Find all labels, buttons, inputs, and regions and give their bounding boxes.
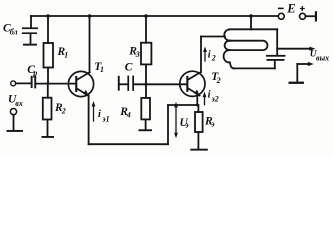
- node rail junction R3: [144, 14, 148, 18]
- current arrow i_э2: [203, 92, 207, 105]
- wire tank right vertical: [276, 29, 278, 55]
- wire input bottom stem: [13, 115, 15, 130]
- wire R1 bottom to base node: [47, 68, 49, 84]
- label Cр: [27, 64, 37, 78]
- ground under Rэ: [190, 149, 208, 151]
- minus sign: [278, 8, 284, 10]
- label Uэ: [180, 117, 190, 130]
- node base2 junction dot: [145, 83, 148, 86]
- inductor L top line: [230, 28, 278, 30]
- terminal input top: [11, 81, 16, 86]
- label i_э1: [98, 109, 110, 124]
- svg-text:3: 3: [135, 50, 140, 59]
- resistor R3: [141, 43, 151, 65]
- svg-text:E: E: [286, 2, 295, 16]
- node rail junction coil: [249, 14, 253, 18]
- ground under input: [7, 130, 24, 132]
- label R1: [57, 46, 69, 60]
- svg-text:2: 2: [216, 76, 221, 85]
- wire T2 collector up: [200, 37, 202, 73]
- wire C_bl stem from rail: [30, 16, 32, 28]
- wire bottom run: [89, 143, 168, 145]
- ground under Cбл: [23, 44, 37, 46]
- svg-text:вых: вых: [316, 54, 329, 63]
- label Cбл: [3, 22, 18, 36]
- wire output ground up: [296, 64, 298, 82]
- label T1: [94, 61, 104, 74]
- capacitor Cбл: [22, 27, 38, 34]
- capacitor Cр: [31, 75, 37, 88]
- wire T2 emitter down: [196, 96, 198, 106]
- wire coil bottom exit curl: [230, 62, 235, 68]
- wire Rэ top stem: [197, 105, 199, 112]
- wire tank bottom run: [234, 67, 275, 69]
- wire top supply rail: [31, 15, 278, 17]
- svg-text:1: 1: [64, 51, 68, 60]
- wire R1 top stem: [47, 16, 49, 43]
- wire Cр to T1 base: [36, 83, 75, 85]
- svg-text:э1: э1: [101, 114, 109, 123]
- wire C_bl lower stem: [30, 34, 32, 44]
- label C: [125, 62, 133, 74]
- node emitter2 junction: [196, 104, 199, 107]
- resistor R2: [43, 98, 52, 120]
- svg-text:вх: вх: [15, 99, 23, 108]
- voltage arrow Uэ: [174, 102, 178, 138]
- svg-text:i: i: [98, 109, 101, 120]
- wire T2 collector to coil: [201, 36, 225, 38]
- svg-text:э2: э2: [210, 95, 218, 104]
- label T2: [211, 71, 220, 85]
- node rail junction R1: [46, 14, 50, 18]
- wire emitter2 run: [168, 104, 197, 106]
- wire R3 bottom to base2 node: [145, 64, 147, 84]
- wire output bottom with arrow: [297, 62, 314, 66]
- label E: [286, 2, 295, 16]
- wire output top with arrow: [277, 47, 315, 51]
- wire T1 emitter down: [88, 96, 90, 144]
- wire R4 top stem: [145, 84, 147, 98]
- wire R2 bottom stem: [47, 120, 49, 136]
- label i_2: [208, 49, 216, 62]
- label Uвх: [8, 94, 23, 109]
- node base1 junction dot: [47, 82, 50, 85]
- ground output: [289, 82, 305, 84]
- terminal stub bar left of C: [118, 76, 120, 91]
- wire coil stem from rail: [250, 16, 252, 29]
- terminal E plus: [300, 13, 306, 19]
- plus sign: [301, 7, 305, 11]
- wire stub to C: [120, 83, 128, 85]
- wire R2 top stem: [47, 84, 49, 98]
- svg-text:э: э: [184, 120, 189, 129]
- label R4: [119, 106, 131, 119]
- wire T1 collector up: [89, 16, 91, 72]
- transistor T1: [68, 71, 93, 96]
- current arrow i_э1: [92, 101, 96, 121]
- svg-text:2: 2: [211, 54, 216, 63]
- inductor L left bump 1: [224, 29, 230, 40]
- inductor L left bump 3: [224, 50, 230, 62]
- capacitor tank Ck: [266, 55, 286, 61]
- resistor R4: [141, 98, 150, 120]
- label R2: [54, 102, 66, 116]
- terminal input bottom: [10, 109, 16, 115]
- inductor L loop2 body: [230, 41, 268, 50]
- wire R3 top stem: [145, 16, 147, 43]
- svg-text:1: 1: [100, 65, 104, 74]
- wire Rэ bottom stem: [197, 132, 199, 149]
- svg-text:i: i: [208, 89, 211, 100]
- label Uвых: [310, 50, 329, 63]
- svg-text:2: 2: [61, 107, 66, 116]
- wire C to T2 base: [134, 83, 186, 85]
- current arrow i_2: [203, 47, 207, 62]
- wire up to emitter2 node: [167, 105, 169, 144]
- svg-text:4: 4: [126, 110, 131, 119]
- ground under R2: [42, 136, 55, 138]
- wire tank cap bottom stem: [274, 61, 276, 69]
- node rail junction T1: [88, 14, 92, 18]
- label R3: [128, 45, 140, 59]
- wire R4 bottom stem: [145, 119, 147, 129]
- terminal E plus end bar: [315, 11, 317, 21]
- label Rэ: [204, 115, 215, 128]
- inductor L left bump 2: [225, 41, 230, 50]
- wire E plus lead: [306, 15, 315, 17]
- terminal E minus: [278, 13, 284, 19]
- transistor T2: [180, 71, 205, 96]
- resistor Rэ: [195, 112, 203, 132]
- resistor R1: [44, 43, 54, 68]
- svg-text:бл: бл: [10, 28, 18, 37]
- capacitor C: [127, 76, 134, 91]
- wire input to Cр: [16, 82, 31, 84]
- svg-text:i: i: [208, 49, 211, 60]
- ground under R4: [139, 129, 153, 131]
- label i_э2: [208, 89, 219, 103]
- svg-text:э: э: [210, 120, 215, 129]
- svg-text:C: C: [125, 62, 133, 74]
- svg-text:р: р: [32, 69, 37, 78]
